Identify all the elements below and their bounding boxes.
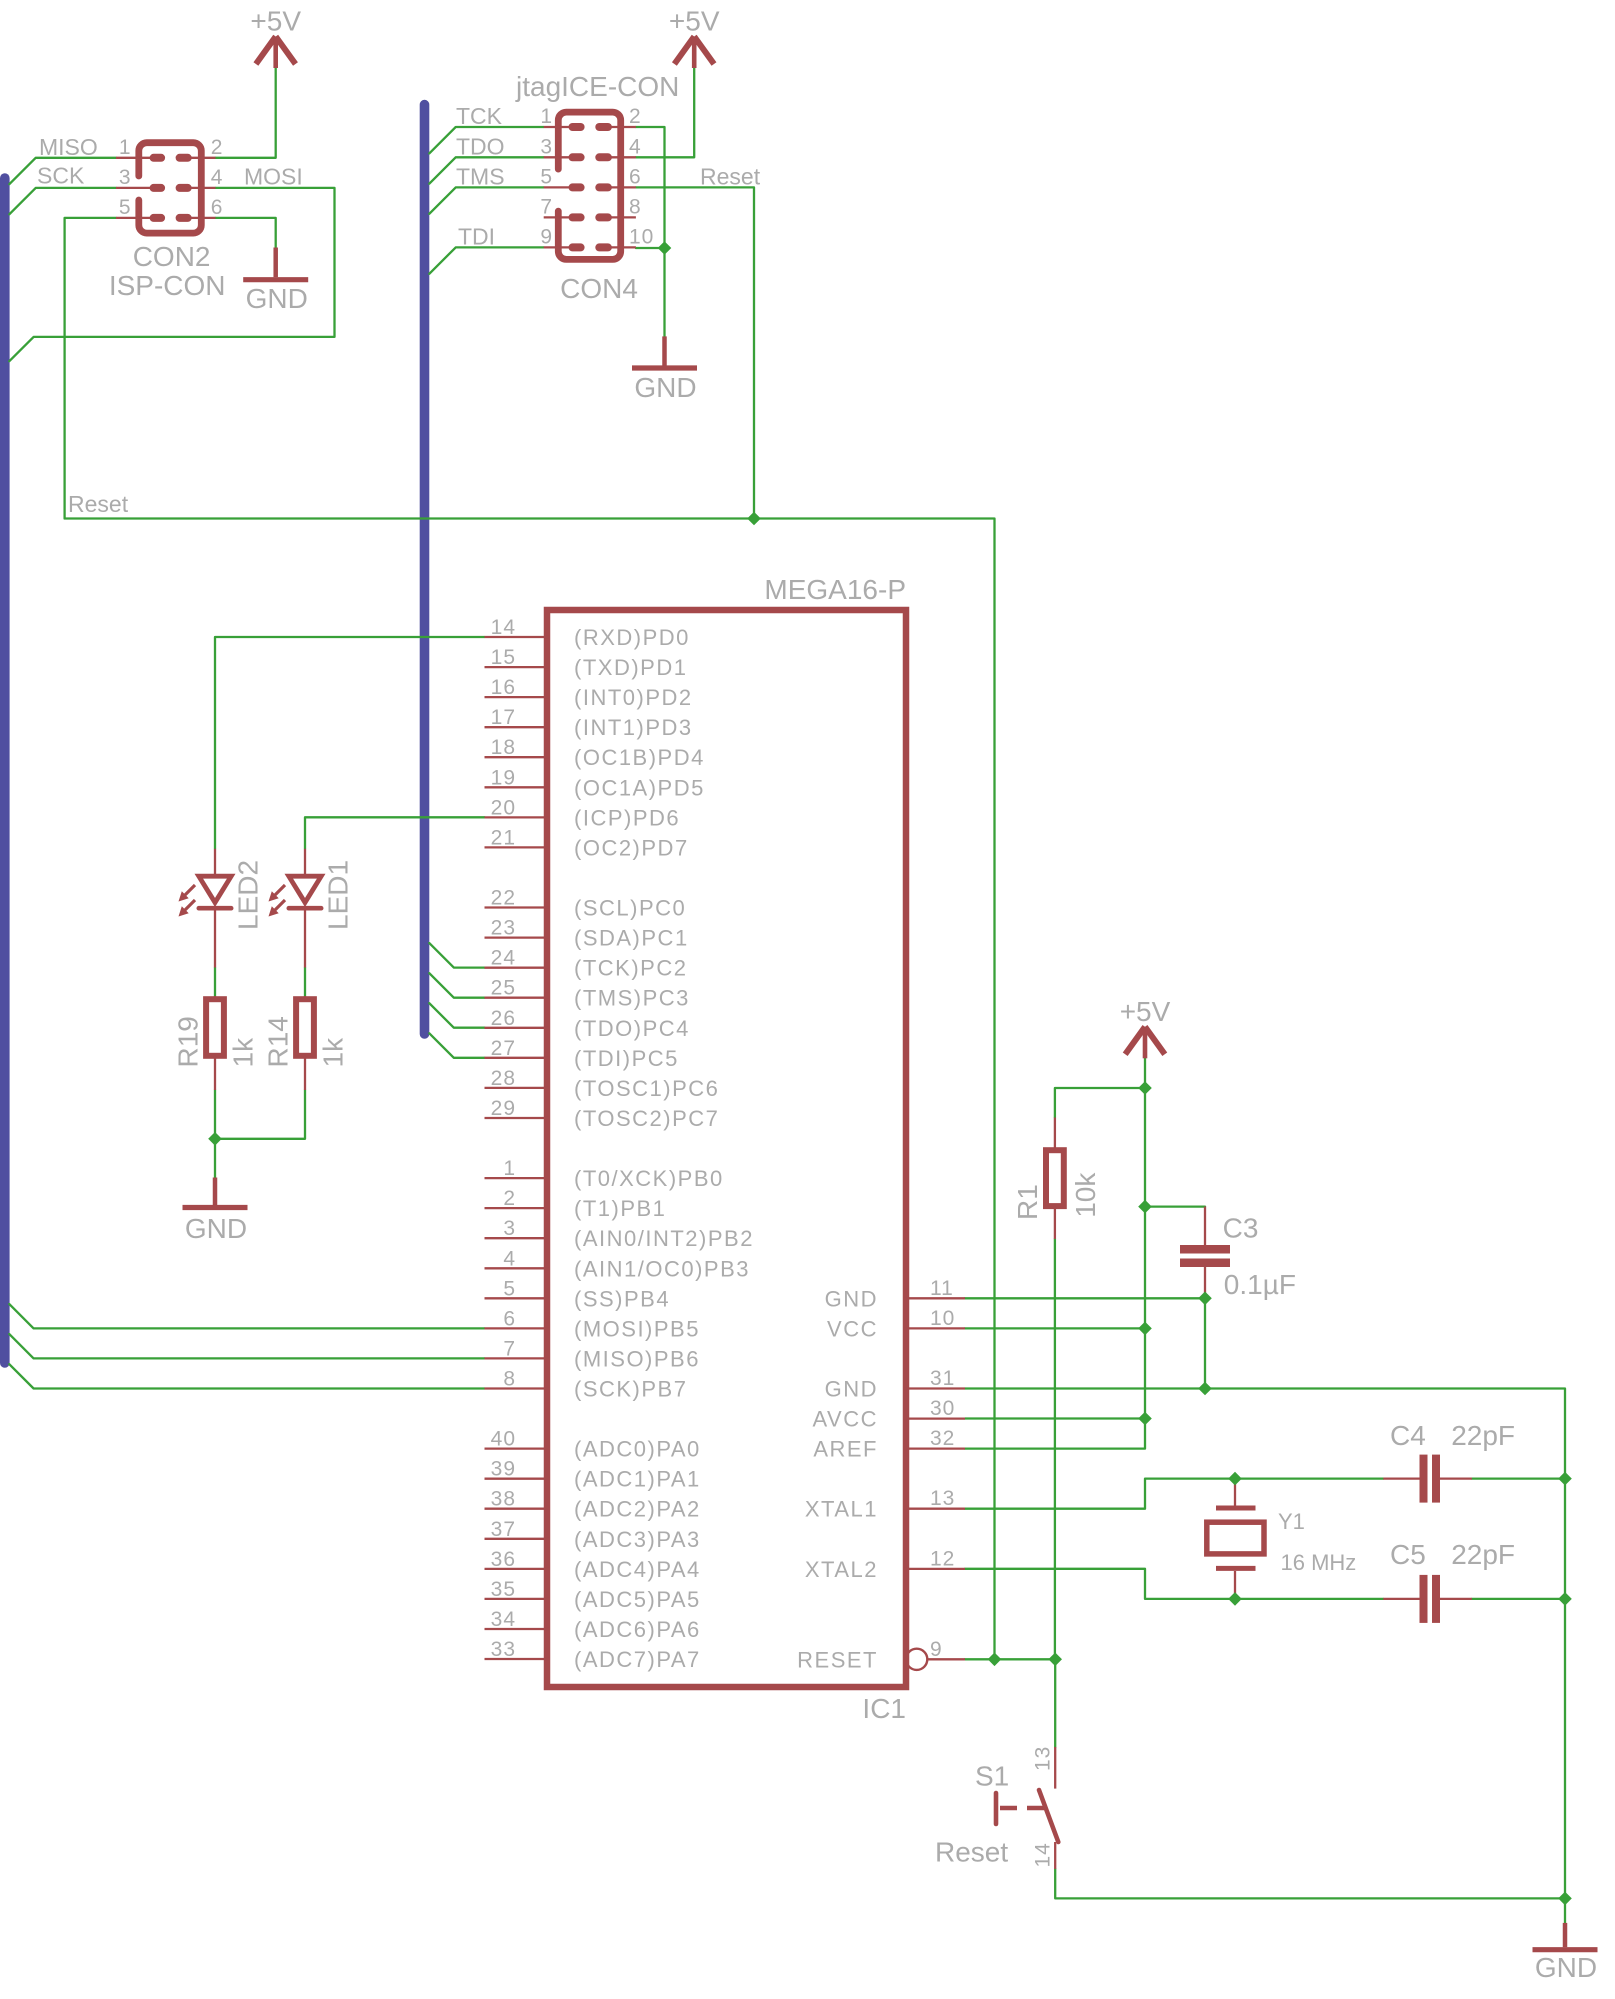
svg-text:(OC1B)PD4: (OC1B)PD4 (574, 745, 705, 770)
bus ISP (left vertical) (0, 178, 10, 1363)
wire net TDI bus to IC pin 27 (429, 1033, 484, 1058)
svg-text:CON4: CON4 (560, 273, 638, 304)
svg-text:23: 23 (491, 917, 516, 940)
svg-text:AVCC: AVCC (813, 1407, 879, 1432)
CON4 pin 1 pad (569, 123, 585, 131)
svg-text:8: 8 (629, 195, 642, 218)
svg-text:(ADC7)PA7: (ADC7)PA7 (574, 1647, 701, 1672)
svg-text:C5: C5 (1390, 1539, 1426, 1570)
CON4 pin 4 stub (611, 156, 636, 158)
wire LED2 cathode to R19 (214, 968, 216, 997)
wire net TMS from bus to CON4 pin 5 (429, 187, 543, 213)
ground GND at CON2 (243, 248, 308, 315)
ground GND bottom right (1533, 1923, 1598, 1983)
svg-text:1k: 1k (228, 1037, 259, 1068)
capacitor C5 22pF (1383, 1575, 1472, 1623)
svg-text:(ADC3)PA3: (ADC3)PA3 (574, 1527, 701, 1552)
CON2 pin 5 stub (116, 217, 150, 219)
IC1 pin 35 stub (485, 1598, 550, 1600)
svg-text:22pF: 22pF (1451, 1539, 1515, 1570)
junction C4 right / GND rail (1558, 1472, 1572, 1486)
wire CON2 pin 6 to GND (216, 218, 276, 248)
CON4 pin 9 pad (569, 243, 585, 251)
wire S1 pin 14 to bottom GND rail (1055, 1869, 1565, 1899)
svg-text:MEGA16-P: MEGA16-P (764, 574, 906, 605)
svg-text:32: 32 (930, 1427, 955, 1450)
svg-text:4: 4 (629, 135, 642, 158)
svg-text:10: 10 (629, 225, 654, 248)
svg-text:(ADC6)PA6: (ADC6)PA6 (574, 1617, 701, 1642)
wire +5V branch to C3 (1145, 1205, 1205, 1207)
IC1 pin 4 stub (485, 1267, 550, 1269)
IC1 pin 19 stub (485, 786, 550, 788)
IC1 pin 26 stub (485, 1027, 550, 1029)
wire net MISO from bus to CON2 pin 1 (9, 158, 116, 184)
IC1 pin 40 stub (485, 1447, 550, 1449)
svg-text:17: 17 (491, 706, 516, 729)
IC1 pin 29 stub (485, 1117, 550, 1119)
svg-text:25: 25 (491, 977, 516, 1000)
IC1 pin 16 stub (485, 696, 550, 698)
CON2 pin 2 pad (176, 154, 192, 162)
CON4 pin 2 pad (595, 123, 612, 131)
svg-text:+5V: +5V (250, 6, 301, 37)
junction R1 / S1 at pin 9 net (1048, 1653, 1062, 1667)
svg-text:5: 5 (540, 165, 553, 188)
svg-text:6: 6 (629, 165, 642, 188)
svg-text:1k: 1k (318, 1037, 349, 1068)
CON2 pin 3 stub (116, 187, 150, 189)
svg-text:(TOSC1)PC6: (TOSC1)PC6 (574, 1076, 719, 1101)
IC1 pin 23 stub (485, 936, 550, 938)
svg-text:TDI: TDI (458, 223, 495, 249)
wire CON4 pin 2 to GND net (636, 127, 665, 336)
svg-text:16: 16 (491, 676, 516, 699)
svg-text:Reset: Reset (935, 1836, 1008, 1867)
svg-text:(ADC0)PA0: (ADC0)PA0 (574, 1437, 701, 1462)
wire net SCK from bus to CON2 pin 3 (9, 188, 116, 214)
CON4 pin 1 stub (544, 126, 569, 128)
svg-text:33: 33 (491, 1638, 516, 1661)
wire XTAL1 net to Y1/C4 (965, 1479, 1383, 1509)
svg-text:(ADC4)PA4: (ADC4)PA4 (574, 1557, 701, 1582)
wire R19 to GND junction (214, 1090, 216, 1178)
svg-text:(RXD)PD0: (RXD)PD0 (574, 625, 690, 650)
wire IC pin 31 GND to right GND rail (965, 1389, 1565, 1923)
svg-text:GND: GND (246, 283, 308, 314)
svg-text:1: 1 (540, 105, 553, 128)
svg-text:(ADC2)PA2: (ADC2)PA2 (574, 1497, 701, 1522)
IC1 pin 20 stub (485, 816, 550, 818)
svg-text:(TXD)PD1: (TXD)PD1 (574, 655, 687, 680)
CON2 pin 4 stub (191, 187, 216, 189)
IC1 pin 9 RESET inversion circle (906, 1649, 927, 1670)
IC1 pin 14 stub (485, 636, 550, 638)
wire net TDO bus to IC pin 26 (429, 1003, 484, 1027)
svg-text:(TDO)PC4: (TDO)PC4 (574, 1016, 690, 1041)
svg-text:9: 9 (540, 225, 553, 248)
CON2 pin 4 pad (176, 184, 192, 192)
IC1 pin 17 stub (485, 726, 550, 728)
junction bottom GND rail / S1 (1558, 1892, 1572, 1906)
svg-text:(SS)PB4: (SS)PB4 (574, 1286, 670, 1311)
svg-text:40: 40 (491, 1428, 516, 1451)
svg-text:2: 2 (503, 1187, 516, 1210)
capacitor C3 0.1uF (1180, 1207, 1230, 1299)
svg-text:2: 2 (211, 136, 224, 159)
svg-text:C3: C3 (1223, 1213, 1259, 1244)
IC1 pin 24 stub (485, 967, 550, 969)
IC1 pin 32 stub (904, 1447, 965, 1449)
svg-text:(TCK)PC2: (TCK)PC2 (574, 956, 687, 981)
supply +5V at CON2 (250, 6, 301, 69)
resistor R19 1k (206, 996, 224, 1090)
svg-text:(TDI)PC5: (TDI)PC5 (574, 1046, 679, 1071)
svg-text:14: 14 (1031, 1842, 1054, 1867)
svg-text:6: 6 (211, 196, 224, 219)
svg-text:31: 31 (930, 1367, 955, 1390)
svg-text:VCC: VCC (827, 1316, 878, 1341)
svg-text:LED1: LED1 (323, 860, 354, 930)
svg-text:+5V: +5V (1120, 996, 1171, 1027)
connector CON2 ISP-CON body (139, 143, 202, 233)
svg-text:29: 29 (491, 1097, 516, 1120)
supply +5V at CON4 (669, 6, 720, 69)
junction +5V / C3 branch (1138, 1200, 1152, 1214)
svg-text:26: 26 (491, 1007, 516, 1030)
CON4 pin 3 pad (569, 153, 585, 161)
svg-text:GND: GND (634, 372, 696, 403)
ground GND at LED resistors (183, 1178, 248, 1245)
svg-text:19: 19 (491, 766, 516, 789)
wire +5V branch to R1 (1055, 1088, 1145, 1118)
IC1 pin 25 stub (485, 997, 550, 999)
svg-text:5: 5 (503, 1277, 516, 1300)
svg-text:C4: C4 (1390, 1420, 1426, 1451)
wire R1 bottom to reset net (1054, 1239, 1056, 1659)
wire CON4 pin 4 to +5V (636, 68, 694, 158)
wire net Reset horizontal and down to RESET pin 9 (65, 519, 995, 1660)
svg-text:SCK: SCK (37, 163, 85, 189)
svg-text:jtagICE-CON: jtagICE-CON (515, 71, 679, 102)
svg-text:10k: 10k (1070, 1172, 1101, 1218)
svg-text:RESET: RESET (797, 1647, 878, 1672)
svg-text:(OC2)PD7: (OC2)PD7 (574, 835, 689, 860)
svg-text:(INT1)PD3: (INT1)PD3 (574, 715, 693, 740)
wire IC pin 11 GND to C3 (965, 1297, 1205, 1299)
svg-text:20: 20 (491, 796, 516, 819)
svg-text:MOSI: MOSI (244, 163, 303, 189)
svg-text:MISO: MISO (39, 134, 98, 160)
svg-text:9: 9 (930, 1638, 943, 1661)
CON2 pin 6 stub (191, 217, 216, 219)
svg-text:R19: R19 (173, 1016, 204, 1067)
CON4 pin 10 stub (611, 246, 636, 248)
svg-text:1: 1 (119, 136, 132, 159)
svg-text:3: 3 (119, 166, 132, 189)
svg-text:38: 38 (491, 1488, 516, 1511)
IC1 pin 10 stub (904, 1327, 965, 1329)
svg-text:XTAL2: XTAL2 (805, 1557, 878, 1582)
IC1 pin 31 stub (904, 1387, 965, 1389)
junction VCC pin10 / +5V (1138, 1322, 1152, 1336)
wire C4 right to GND rail (1472, 1477, 1565, 1479)
IC1 pin 15 stub (485, 666, 550, 668)
IC1 pin 39 stub (485, 1478, 550, 1480)
CON4 pin 8 stub (611, 216, 636, 218)
IC1 pin 22 stub (485, 906, 550, 908)
svg-text:GND: GND (825, 1377, 878, 1402)
svg-text:LED2: LED2 (233, 860, 264, 930)
CON4 pin 9 stub (544, 246, 569, 248)
svg-text:(MISO)PB6: (MISO)PB6 (574, 1346, 700, 1371)
svg-text:12: 12 (930, 1547, 955, 1570)
wire RESET pin 9 to junctions (965, 1658, 1055, 1660)
IC1 pin 8 stub (485, 1387, 550, 1389)
svg-text:4: 4 (211, 166, 224, 189)
IC1 pin 34 stub (485, 1628, 550, 1630)
svg-text:(AIN1/OC0)PB3: (AIN1/OC0)PB3 (574, 1256, 750, 1281)
IC1 pin 21 stub (485, 846, 550, 848)
LED LED1 (269, 849, 322, 968)
svg-text:6: 6 (503, 1307, 516, 1330)
svg-text:(AIN0/INT2)PB2: (AIN0/INT2)PB2 (574, 1226, 754, 1251)
svg-text:Reset: Reset (700, 163, 761, 189)
junction GND31 / C3 drop (1198, 1382, 1212, 1396)
wire net Reset from CON4 pin 6 (636, 187, 754, 518)
wire net TMS bus to IC pin 25 (429, 973, 484, 998)
svg-text:TDO: TDO (456, 133, 505, 159)
CON4 pin 4 pad (595, 153, 612, 161)
svg-text:8: 8 (503, 1368, 516, 1391)
svg-text:GND: GND (185, 1213, 247, 1244)
wire net SCK bus to IC pin 8 (9, 1364, 484, 1388)
svg-text:37: 37 (491, 1518, 516, 1541)
CON4 pin 10 pad (595, 243, 612, 251)
CON4 pin 6 pad (595, 183, 612, 191)
IC1 pin 6 stub (485, 1327, 550, 1329)
IC1 pin 7 stub (485, 1357, 550, 1359)
svg-text:+5V: +5V (669, 6, 720, 37)
wire IC pin 14 to LED2 (215, 637, 485, 849)
svg-text:ISP-CON: ISP-CON (109, 270, 226, 301)
svg-text:Y1: Y1 (1278, 1509, 1305, 1534)
svg-text:5: 5 (119, 196, 132, 219)
svg-text:(OC1A)PD5: (OC1A)PD5 (574, 775, 705, 800)
IC1 pin 30 stub (904, 1417, 965, 1419)
CON2 pin 1 pad (150, 154, 166, 162)
bus JTAG (vertical) (420, 105, 430, 1034)
wire net MOSI loop from CON2 pin 4 to bus (9, 188, 334, 361)
svg-text:TCK: TCK (456, 103, 503, 129)
svg-text:22: 22 (491, 887, 516, 910)
IC1 pin 36 stub (485, 1568, 550, 1570)
wire CON2 pin 2 to +5V (216, 68, 276, 158)
IC1 pin 38 stub (485, 1508, 550, 1510)
svg-text:IC1: IC1 (862, 1693, 906, 1724)
svg-text:16 MHz: 16 MHz (1281, 1550, 1357, 1575)
wire net TDO from bus to CON4 pin 3 (429, 157, 543, 183)
svg-text:10: 10 (930, 1307, 955, 1330)
capacitor C4 22pF (1383, 1455, 1472, 1503)
CON2 pin 6 pad (176, 214, 192, 222)
wire net TCK bus to IC pin 24 (429, 943, 484, 968)
IC1 pin 13 stub (904, 1508, 965, 1510)
wire IC pin 30 AVCC to +5V (965, 1417, 1145, 1419)
CON4 pin 5 stub (544, 186, 569, 188)
IC1 pin 9 stub (927, 1658, 965, 1660)
svg-text:(ADC1)PA1: (ADC1)PA1 (574, 1467, 701, 1492)
svg-text:XTAL1: XTAL1 (805, 1497, 878, 1522)
CON2 pin 1 stub (116, 157, 150, 159)
CON4 pin 7 pad (569, 213, 585, 221)
IC1 pin 3 stub (485, 1237, 550, 1239)
svg-text:28: 28 (491, 1067, 516, 1090)
wire C3 bottom to GND net (1204, 1298, 1206, 1388)
svg-text:2: 2 (629, 105, 642, 128)
svg-text:3: 3 (503, 1217, 516, 1240)
svg-text:34: 34 (491, 1608, 516, 1631)
wire net TCK from bus to CON4 pin 1 (429, 127, 543, 153)
svg-text:13: 13 (1031, 1746, 1054, 1771)
svg-text:21: 21 (491, 826, 516, 849)
svg-text:27: 27 (491, 1037, 516, 1060)
junction GND11 / C3 (1198, 1292, 1212, 1306)
wire LED1 cathode to R14 (304, 968, 306, 997)
wire net TDI from bus to CON4 pin 9 (429, 247, 543, 273)
CON4 pin 8 pad (595, 213, 612, 221)
svg-text:(TOSC2)PC7: (TOSC2)PC7 (574, 1106, 719, 1131)
wire +5V vertical to VCC/AVCC/AREF (965, 1058, 1145, 1449)
IC U1 MEGA16-P body (547, 610, 906, 1687)
wire C5 right to GND rail (1472, 1598, 1565, 1600)
junction AVCC pin30 / +5V (1138, 1412, 1152, 1426)
IC1 pin 27 stub (485, 1057, 550, 1059)
svg-text:(ICP)PD6: (ICP)PD6 (574, 805, 680, 830)
svg-text:22pF: 22pF (1451, 1420, 1515, 1451)
CON4 pin 5 pad (569, 183, 585, 191)
IC1 pin 11 stub (904, 1297, 965, 1299)
svg-text:S1: S1 (975, 1761, 1009, 1792)
wire XTAL2 net to Y1/C5 (965, 1569, 1383, 1599)
svg-text:24: 24 (491, 947, 516, 970)
wire IC pin 20 to LED1 (305, 817, 485, 849)
svg-text:35: 35 (491, 1578, 516, 1601)
IC1 pin 18 stub (485, 756, 550, 758)
wire IC pin 10 VCC to +5V (965, 1327, 1145, 1329)
svg-text:(T0/XCK)PB0: (T0/XCK)PB0 (574, 1166, 724, 1191)
svg-text:CON2: CON2 (133, 241, 211, 272)
junction LED GND rail (208, 1132, 222, 1146)
wire net Reset from CON2 pin 5 down (65, 218, 116, 519)
svg-text:(SDA)PC1: (SDA)PC1 (574, 926, 689, 951)
CON4 pin 7 stub (544, 216, 569, 218)
wire CON4 pin 10 to junction (636, 247, 665, 249)
svg-text:30: 30 (930, 1397, 955, 1420)
svg-text:(INT0)PD2: (INT0)PD2 (574, 685, 693, 710)
svg-text:TMS: TMS (456, 163, 505, 189)
svg-text:(T1)PB1: (T1)PB1 (574, 1196, 666, 1221)
svg-text:(MOSI)PB5: (MOSI)PB5 (574, 1316, 700, 1341)
IC1 pin 37 stub (485, 1538, 550, 1540)
svg-text:(SCL)PC0: (SCL)PC0 (574, 896, 686, 921)
junction Y1 bottom / XTAL2 (1228, 1592, 1242, 1606)
svg-text:15: 15 (491, 646, 516, 669)
IC1 pin 2 stub (485, 1207, 550, 1209)
svg-text:GND: GND (1535, 1952, 1597, 1983)
junction C5 right / GND rail (1558, 1592, 1572, 1606)
svg-text:14: 14 (491, 616, 516, 639)
IC1 pin 5 stub (485, 1297, 550, 1299)
svg-text:R1: R1 (1012, 1184, 1043, 1220)
svg-text:4: 4 (503, 1247, 516, 1270)
svg-text:(SCK)PB7: (SCK)PB7 (574, 1377, 687, 1402)
junction Y1 top / XTAL1 (1228, 1472, 1242, 1486)
connector CON4 jtagICE-CON body (558, 112, 620, 259)
wire R14 to GND junction (215, 1090, 305, 1139)
svg-text:3: 3 (540, 135, 553, 158)
resistor R1 10k (1046, 1118, 1064, 1239)
svg-text:0.1µF: 0.1µF (1224, 1269, 1296, 1300)
svg-text:13: 13 (930, 1487, 955, 1510)
svg-text:36: 36 (491, 1548, 516, 1571)
svg-text:(ADC5)PA5: (ADC5)PA5 (574, 1587, 701, 1612)
IC1 pin 33 stub (485, 1658, 550, 1660)
CON2 pin 5 pad (150, 214, 166, 222)
junction Reset net at CON4 drop (747, 512, 761, 526)
svg-text:39: 39 (491, 1458, 516, 1481)
CON2 pin 2 stub (191, 157, 216, 159)
resistor R14 1k (296, 996, 314, 1090)
svg-text:7: 7 (540, 195, 553, 218)
supply +5V at R1 (1120, 996, 1171, 1058)
IC1 pin 12 stub (904, 1568, 965, 1570)
junction Reset net at pin 9 (988, 1653, 1002, 1667)
CON4 pin 3 stub (544, 156, 569, 158)
svg-text:R14: R14 (263, 1016, 294, 1067)
IC1 pin 1 stub (485, 1177, 550, 1179)
LED LED2 (179, 849, 232, 968)
svg-text:(TMS)PC3: (TMS)PC3 (574, 986, 690, 1011)
svg-text:18: 18 (491, 736, 516, 759)
CON4 pin 2 stub (611, 126, 636, 128)
junction CON4 pin10/GND (658, 241, 672, 255)
svg-text:GND: GND (825, 1286, 878, 1311)
svg-text:AREF: AREF (813, 1437, 878, 1462)
wire net MISO bus to IC pin 7 (9, 1334, 484, 1358)
junction +5V / R1 branch (1138, 1081, 1152, 1095)
wire reset junction down to S1 pin 13 (1054, 1659, 1056, 1747)
CON4 pin 6 stub (611, 186, 636, 188)
ground GND at CON4 (632, 336, 697, 403)
CON2 pin 3 pad (150, 184, 166, 192)
svg-text:Reset: Reset (68, 491, 129, 517)
IC1 pin 28 stub (485, 1087, 550, 1089)
switch S1 Reset (996, 1747, 1058, 1869)
svg-text:11: 11 (930, 1277, 954, 1300)
crystal Y1 16 MHz (1207, 1479, 1264, 1599)
svg-text:1: 1 (503, 1157, 516, 1180)
wire net MOSI bus to IC pin 6 (9, 1304, 484, 1328)
svg-text:7: 7 (503, 1337, 516, 1360)
